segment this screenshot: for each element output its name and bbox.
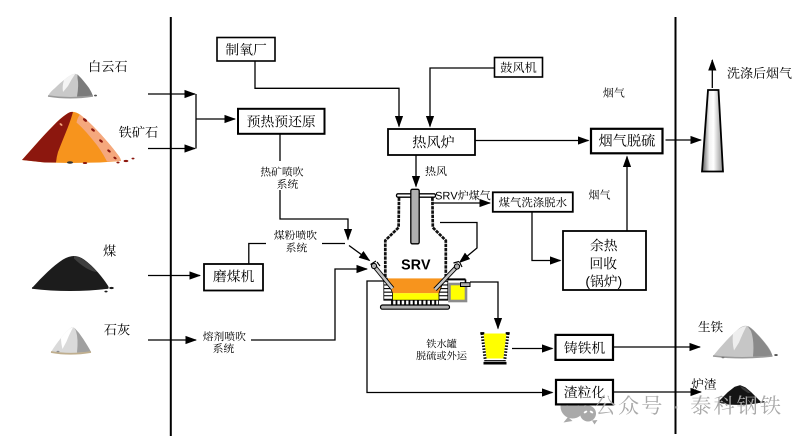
label 烟气 top <box>603 87 624 97</box>
pile 石灰 (lime, white-gray) <box>51 327 91 354</box>
label 熔剂喷吹 <box>203 331 246 341</box>
label SRV炉煤气 <box>436 190 491 200</box>
box label 煤气洗涤脱水 <box>499 197 567 208</box>
wire bracket to 预热预还原 arrow <box>196 118 235 120</box>
SRV furnace base plate <box>381 305 450 309</box>
wire 铸铁机 to 生铁 arrow <box>613 346 700 348</box>
watermark logo (wechat bubbles) <box>561 395 598 425</box>
wire 烟气脱硫 to chimney arrow <box>666 139 702 141</box>
SRV furnace offgas duct <box>411 189 419 244</box>
wire 白云石 feed arrow <box>148 93 195 95</box>
wire 煤粉喷吹 label resume <box>322 243 345 245</box>
box label 预热预还原 <box>247 115 315 128</box>
box label 热风炉 <box>413 135 454 148</box>
left battery-limit line <box>170 17 172 436</box>
label 烟气 mid <box>589 189 610 199</box>
label 煤 (coal) <box>103 245 115 257</box>
wire 煤气洗涤脱水 to 余热回收 <box>532 212 561 261</box>
label 石灰 (lime) <box>104 323 130 335</box>
box 余热回收(锅炉) <box>563 231 646 290</box>
box label 制氧厂 <box>226 43 266 56</box>
pile 白云石 (dolomite, light gray) <box>48 74 97 98</box>
box 热风炉 <box>388 129 475 155</box>
box label 鼓风机 <box>501 62 537 73</box>
label 炉渣 (slag) <box>692 378 716 390</box>
pile 炉渣 (slag, black) drawn over watermark <box>719 386 765 404</box>
SRV furnace shell walls (sketchy) <box>385 198 446 280</box>
box 鼓风机 <box>495 58 543 78</box>
box label 烟气脱硫 <box>599 134 655 147</box>
wire 石灰 feed arrow <box>148 339 196 341</box>
label 洗涤后烟气 <box>727 67 791 79</box>
box 渣粒化 <box>556 380 613 405</box>
label 生铁 (pig iron) <box>698 321 722 333</box>
wire 渣粒化 to 炉渣 arrow <box>613 391 701 393</box>
box label 铸铁机 <box>564 341 605 354</box>
box 制氧厂 <box>217 38 275 62</box>
wire 热风 down arrow <box>415 155 417 187</box>
forehearth container <box>448 279 470 301</box>
watermark text 公众号·泰科钢铁 <box>595 395 780 415</box>
wire SRV炉煤气 arrow <box>432 202 490 204</box>
label 系统 (flux) <box>213 343 234 353</box>
SRV furnace slag bath (orange) <box>386 278 446 293</box>
SRV furnace hearth teeth row <box>392 300 439 305</box>
wire slag tap to 渣粒化 <box>367 281 553 393</box>
wire ladle to 铸铁机 arrow <box>512 348 553 350</box>
wire chimney exhaust up arrow <box>711 60 713 88</box>
box 铸铁机 <box>556 335 614 360</box>
wire lance diagonal arrow into furnace top-left <box>349 246 370 261</box>
wire 预热预还原 down to label <box>279 134 281 161</box>
wire 制氧厂 to 热风炉 <box>255 61 399 127</box>
label 系统 (coal powder) <box>286 242 307 252</box>
box label (锅炉) <box>586 274 621 289</box>
box label 渣粒化 <box>564 386 604 399</box>
label 系统 (hot ore) <box>277 179 298 189</box>
lance right <box>435 262 462 290</box>
wire 热矿喷吹 label to furnace <box>280 190 348 240</box>
wire 煤 to 磨煤机 arrow <box>148 275 200 277</box>
wire 熔剂喷吹 to furnace left lance <box>251 269 367 340</box>
chimney <box>702 90 723 172</box>
label SRV furnace <box>402 259 431 269</box>
label 热矿喷吹 <box>261 167 303 177</box>
label 白云石 (dolomite) <box>90 60 127 72</box>
wire 铁矿石 feed arrow <box>148 148 195 150</box>
box label 磨煤机 <box>213 270 254 283</box>
SRV furnace brick wall right <box>439 278 448 300</box>
SRV furnace top cap <box>397 194 436 197</box>
label 煤粉喷吹 <box>274 230 317 240</box>
wire merge bracket <box>195 94 197 149</box>
label 脱硫或外运 <box>416 351 466 360</box>
ladle (hot metal car) <box>480 333 509 363</box>
box 磨煤机 <box>204 264 263 291</box>
wire 余热回收 to 烟气脱硫 up arrow <box>626 157 628 232</box>
box 烟气脱硫 <box>591 129 663 154</box>
box 煤气洗涤脱水 <box>493 192 573 212</box>
pile 煤 (coal, black) <box>32 256 114 292</box>
pile 铁矿石 (iron ore: maroon/orange/salmon) <box>22 112 135 164</box>
wire 磨煤机 up to label <box>249 244 266 265</box>
SRV furnace metal bath (yellow) <box>390 293 439 300</box>
right battery-limit line <box>675 17 677 434</box>
wire furnace top-right loop arrow <box>440 223 477 263</box>
lance left <box>371 261 393 289</box>
box label 回收 <box>591 257 617 270</box>
wire 热风炉 to 烟气脱硫 arrow <box>475 140 589 142</box>
box 预热预还原 <box>238 109 325 134</box>
SRV furnace brick wall left <box>384 278 393 300</box>
label 热风 (hot blast) <box>425 166 446 176</box>
pile 生铁 (pig iron, gray) <box>713 326 778 359</box>
wire forehearth to ladle <box>470 282 498 329</box>
box label 余热 <box>590 239 617 252</box>
label 铁矿石 (iron ore) <box>119 126 158 138</box>
label 铁水罐 <box>427 339 457 348</box>
wire 鼓风机 to 热风炉 <box>430 68 495 127</box>
